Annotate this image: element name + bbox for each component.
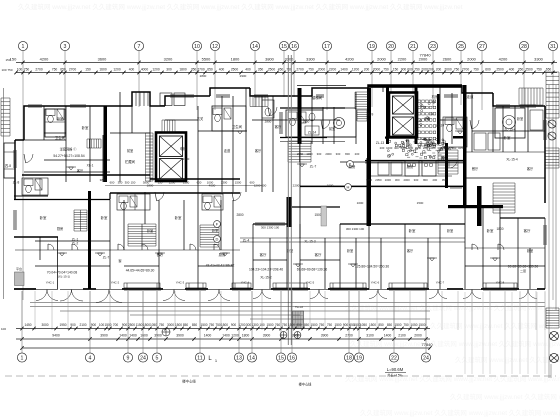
U-stair lower unit2 bbox=[128, 224, 156, 246]
svg-text:1450: 1450 bbox=[24, 323, 31, 327]
svg-text:厨房: 厨房 bbox=[57, 226, 63, 231]
svg-text:300 1300 100: 300 1300 100 bbox=[261, 226, 280, 230]
svg-text:3900: 3900 bbox=[263, 334, 271, 338]
svg-text:2000: 2000 bbox=[444, 146, 451, 150]
svg-text:1800: 1800 bbox=[147, 184, 154, 188]
svg-text:XL-15-2: XL-15-2 bbox=[260, 276, 272, 280]
svg-text:650: 650 bbox=[546, 67, 552, 71]
svg-text:2500: 2500 bbox=[525, 67, 533, 71]
windows left wall bbox=[13, 150, 15, 168]
svg-text:2000: 2000 bbox=[400, 146, 407, 150]
svg-text:750: 750 bbox=[403, 323, 409, 327]
svg-text:24: 24 bbox=[423, 356, 429, 362]
svg-text:走道: 走道 bbox=[424, 116, 431, 121]
svg-text:4: 4 bbox=[89, 356, 92, 362]
svg-text:750: 750 bbox=[536, 67, 542, 71]
svg-text:200: 200 bbox=[423, 146, 428, 150]
svg-text:1400: 1400 bbox=[384, 334, 392, 338]
svg-text:客厅: 客厅 bbox=[315, 252, 322, 257]
svg-text:2700: 2700 bbox=[197, 67, 205, 71]
svg-text:9: 9 bbox=[127, 356, 130, 362]
svg-text:1050: 1050 bbox=[458, 146, 465, 150]
left margin vertical line bbox=[3, 88, 5, 299]
svg-text:ZL-13: ZL-13 bbox=[376, 141, 385, 145]
window left wall center unit bbox=[279, 112, 281, 134]
svg-text:1500: 1500 bbox=[266, 323, 273, 327]
thick black wall bars bbox=[104, 85, 504, 227]
svg-text:77840: 77840 bbox=[421, 342, 433, 347]
svg-text:卧室: 卧室 bbox=[101, 215, 108, 220]
svg-text:750: 750 bbox=[52, 67, 58, 71]
svg-text:H: H bbox=[347, 185, 350, 190]
grid leader lines vertical from top bubbles bbox=[23, 51, 553, 301]
svg-text:窗: 窗 bbox=[118, 258, 121, 263]
svg-text:久久建筑网 www.jjjzw.net 久久建筑网 www.: 久久建筑网 www.jjjzw.net 久久建筑网 www.jjjzw.net … bbox=[345, 374, 560, 383]
svg-text:卧室: 卧室 bbox=[487, 228, 494, 233]
svg-text:1200 300: 1200 300 bbox=[254, 184, 267, 188]
svg-text:洋房网格 ①: 洋房网格 ① bbox=[60, 147, 78, 152]
svg-text:850: 850 bbox=[387, 323, 393, 327]
svg-text:2700: 2700 bbox=[462, 67, 470, 71]
svg-text:600: 600 bbox=[197, 180, 202, 184]
svg-text:楼梯间: 楼梯间 bbox=[312, 95, 323, 100]
bump room divisions top-left bbox=[136, 92, 148, 106]
stair upper small left bbox=[162, 120, 175, 132]
svg-text:卧室: 卧室 bbox=[527, 248, 533, 253]
svg-text:69.68+69.68=139.36: 69.68+69.68=139.36 bbox=[297, 268, 328, 272]
svg-text:2800: 2800 bbox=[200, 74, 207, 78]
interior dim row corridor bbox=[105, 185, 262, 187]
svg-text:2900: 2900 bbox=[303, 120, 310, 124]
svg-text:2000: 2000 bbox=[318, 67, 326, 71]
svg-text:24: 24 bbox=[140, 356, 146, 362]
svg-text:1500: 1500 bbox=[369, 323, 376, 327]
handicap bathroom right mirrored bbox=[495, 108, 525, 138]
svg-text:200: 200 bbox=[380, 146, 385, 150]
svg-text:YHC-7: YHC-7 bbox=[436, 281, 445, 285]
svg-text:750: 750 bbox=[7, 68, 12, 72]
svg-text:850: 850 bbox=[296, 323, 302, 327]
svg-text:1500: 1500 bbox=[314, 213, 321, 217]
interior corridor line pair lower band bbox=[15, 238, 545, 250]
right section grid verticals to centerline bbox=[465, 292, 545, 374]
svg-text:750: 750 bbox=[473, 67, 479, 71]
svg-text:7050: 7050 bbox=[366, 178, 373, 182]
svg-text:14: 14 bbox=[249, 356, 255, 362]
svg-text:1000: 1000 bbox=[386, 146, 393, 150]
windows top walls bbox=[28, 104, 42, 106]
svg-text:750: 750 bbox=[282, 323, 288, 327]
area text labels bbox=[47, 147, 539, 279]
misc interior dimensions bbox=[100, 74, 424, 231]
svg-text:客厅: 客厅 bbox=[255, 148, 262, 153]
svg-text:客厅: 客厅 bbox=[527, 166, 534, 171]
svg-text:150: 150 bbox=[10, 57, 17, 62]
svg-text:ZL-24: ZL-24 bbox=[436, 124, 445, 128]
stair right core x438 bbox=[438, 150, 458, 174]
bath fixtures lower band x117-150 bbox=[119, 196, 128, 203]
dimension ticks top row B bbox=[14, 71, 554, 75]
svg-text:卧室: 卧室 bbox=[40, 215, 47, 220]
right edge ladder hatch lower bbox=[546, 308, 559, 328]
svg-text:300: 300 bbox=[452, 146, 457, 150]
svg-text:77840: 77840 bbox=[419, 53, 431, 58]
watermark text rows bottom right bbox=[345, 303, 560, 417]
svg-text:1800: 1800 bbox=[231, 57, 240, 62]
front room door arc right tower bbox=[450, 161, 457, 168]
bath fixtures lower band x202-223 bbox=[203, 196, 212, 203]
svg-text:100: 100 bbox=[1, 68, 6, 72]
svg-text:2500: 2500 bbox=[268, 67, 276, 71]
elevator core right (two shafts) bbox=[389, 93, 417, 138]
U-stair center-left lower bbox=[288, 141, 311, 162]
svg-text:ZL-15-4: ZL-15-4 bbox=[504, 128, 515, 132]
stair right edge lower bbox=[493, 183, 515, 213]
svg-text:900: 900 bbox=[231, 323, 237, 327]
thick wall x89.5 lower-left bbox=[88, 191, 91, 289]
bottom grid bubble leaders bbox=[22, 291, 426, 353]
svg-text:25: 25 bbox=[458, 44, 464, 50]
svg-text:客厅: 客厅 bbox=[407, 248, 414, 253]
svg-text:14: 14 bbox=[252, 44, 258, 50]
svg-text:1200: 1200 bbox=[426, 67, 434, 71]
svg-text:600: 600 bbox=[110, 180, 115, 184]
svg-text:450: 450 bbox=[278, 67, 284, 71]
svg-text:850: 850 bbox=[183, 323, 189, 327]
svg-text:150: 150 bbox=[393, 67, 399, 71]
svg-text:800: 800 bbox=[423, 178, 428, 182]
svg-text:300: 300 bbox=[414, 178, 419, 182]
svg-text:1400: 1400 bbox=[204, 334, 212, 338]
stair hatch strip left of elevator core bbox=[146, 133, 154, 181]
svg-text:27: 27 bbox=[479, 44, 485, 50]
letter bubbles in plan bbox=[214, 161, 354, 243]
svg-text:3900: 3900 bbox=[154, 334, 162, 338]
svg-text:19: 19 bbox=[369, 44, 375, 50]
svg-text:12: 12 bbox=[212, 44, 218, 50]
svg-text:300: 300 bbox=[395, 178, 400, 182]
svg-text:久久建筑网 www.jjjzw.net 久久建筑网 www.: 久久建筑网 www.jjjzw.net 久久建筑网 www.jjjzw.net … bbox=[430, 321, 560, 330]
svg-text:3200: 3200 bbox=[164, 57, 173, 62]
svg-text:3800: 3800 bbox=[100, 178, 107, 182]
interior door arcs corridor bbox=[26, 154, 33, 163]
svg-text:2700: 2700 bbox=[69, 67, 77, 71]
svg-text:11: 11 bbox=[197, 356, 202, 362]
svg-text:贮藏间: 贮藏间 bbox=[125, 159, 136, 164]
svg-text:1600: 1600 bbox=[140, 334, 148, 338]
svg-text:YHC-2: YHC-2 bbox=[111, 281, 120, 285]
bottom exterior wall with openings bbox=[14, 288, 545, 290]
svg-text:5500: 5500 bbox=[202, 57, 211, 62]
balcony boxes above left core bbox=[160, 93, 172, 106]
small unit tags bottom bbox=[46, 281, 505, 285]
svg-text:21: 21 bbox=[410, 44, 416, 50]
svg-text:卧室: 卧室 bbox=[517, 116, 523, 121]
grid bubbles top row bbox=[18, 41, 557, 50]
svg-text:2000: 2000 bbox=[373, 67, 381, 71]
svg-text:久久建筑网 www.jjjzw.net 久久建筑网 www.: 久久建筑网 www.jjjzw.net 久久建筑网 www.jjjzw.net … bbox=[18, 2, 463, 11]
svg-text:厨房: 厨房 bbox=[349, 164, 356, 169]
svg-text:69.68+69.68=139.36: 69.68+69.68=139.36 bbox=[508, 265, 539, 269]
svg-text:750: 750 bbox=[414, 67, 420, 71]
svg-text:2800: 2800 bbox=[236, 213, 243, 217]
svg-text:YHC-8: YHC-8 bbox=[496, 281, 505, 285]
svg-text:16: 16 bbox=[291, 44, 297, 50]
handicap bathroom center-right bbox=[323, 108, 356, 137]
svg-text:1950: 1950 bbox=[59, 323, 66, 327]
dimension lines bottom bbox=[16, 329, 430, 349]
svg-text:卧室: 卧室 bbox=[447, 228, 453, 233]
svg-text:2000: 2000 bbox=[325, 152, 332, 156]
svg-text:19: 19 bbox=[356, 356, 362, 362]
svg-text:17: 17 bbox=[324, 44, 330, 50]
svg-text:200: 200 bbox=[432, 178, 437, 182]
fixtures center2 bbox=[262, 100, 274, 118]
svg-text:2500: 2500 bbox=[128, 323, 135, 327]
svg-text:3100: 3100 bbox=[366, 334, 374, 338]
dimension lines top rows bbox=[16, 62, 557, 64]
extra room labels bbox=[57, 116, 534, 263]
room name labels bbox=[40, 94, 531, 257]
svg-text:L=90.6M: L=90.6M bbox=[387, 367, 404, 372]
svg-text:300: 300 bbox=[336, 152, 341, 156]
left margin tiny dims bbox=[1, 58, 12, 72]
svg-text:2500: 2500 bbox=[496, 67, 504, 71]
svg-text:9400: 9400 bbox=[52, 334, 60, 338]
svg-text:1500: 1500 bbox=[310, 323, 317, 327]
svg-text:1800: 1800 bbox=[242, 334, 250, 338]
svg-text:100: 100 bbox=[1, 327, 6, 331]
svg-text:1400: 1400 bbox=[119, 334, 127, 338]
small cross circles bottom center bbox=[280, 332, 301, 339]
top line center notch bbox=[297, 85, 346, 87]
svg-text:18: 18 bbox=[346, 356, 352, 362]
expansion joint column center full height bbox=[288, 55, 291, 345]
svg-text:楼中心线: 楼中心线 bbox=[299, 382, 313, 387]
svg-text:850: 850 bbox=[378, 323, 384, 327]
svg-text:电梯: 电梯 bbox=[180, 146, 187, 151]
svg-text:950: 950 bbox=[442, 178, 447, 182]
svg-text:4200: 4200 bbox=[499, 57, 508, 62]
stair center top x250 bbox=[250, 96, 268, 107]
svg-text:1400: 1400 bbox=[222, 334, 230, 338]
svg-text:750: 750 bbox=[327, 323, 333, 327]
svg-text:2700: 2700 bbox=[296, 67, 304, 71]
interior partition walls horizontal bbox=[24, 120, 545, 266]
svg-text:1000: 1000 bbox=[327, 184, 334, 188]
svg-text:28: 28 bbox=[521, 44, 527, 50]
svg-text:卧室: 卧室 bbox=[409, 228, 416, 233]
svg-text:卧室: 卧室 bbox=[504, 135, 511, 140]
svg-text:久久建筑网 www.jjjzw.net 久久建筑网 www.: 久久建筑网 www.jjjzw.net 久久建筑网 www.jjjzw.net … bbox=[360, 408, 560, 417]
svg-text:2000: 2000 bbox=[467, 57, 476, 62]
svg-text:久久建筑网 www.jjjzw.net 久久建筑网 www.: 久久建筑网 www.jjjzw.net 久久建筑网 www.jjjzw.net … bbox=[455, 355, 560, 364]
svg-text:卧室: 卧室 bbox=[347, 248, 353, 253]
svg-text:300: 300 bbox=[394, 146, 399, 150]
dimension numbers top row B bbox=[17, 67, 552, 71]
dimension numbers top row A bbox=[10, 57, 544, 62]
svg-text:7: 7 bbox=[138, 44, 141, 50]
svg-text:(XL-15-1): (XL-15-1) bbox=[58, 275, 70, 279]
svg-text:1500: 1500 bbox=[175, 323, 182, 327]
interior partition walls vertical bbox=[40, 85, 545, 289]
svg-text:15: 15 bbox=[281, 44, 287, 50]
svg-text:YHC-5: YHC-5 bbox=[306, 281, 315, 285]
svg-text:卫生间: 卫生间 bbox=[232, 124, 243, 129]
svg-text:2050: 2050 bbox=[375, 178, 382, 182]
svg-text:楼中心线: 楼中心线 bbox=[182, 379, 196, 384]
svg-text:10: 10 bbox=[194, 44, 200, 50]
bathroom fixtures left unit bbox=[46, 109, 55, 116]
svg-text:900: 900 bbox=[122, 323, 128, 327]
svg-text:15: 15 bbox=[278, 356, 284, 362]
svg-text:400: 400 bbox=[219, 67, 225, 71]
dimension numbers bottom row D bbox=[52, 334, 422, 338]
svg-text:YHC-3: YHC-3 bbox=[176, 281, 185, 285]
svg-text:2200: 2200 bbox=[398, 57, 407, 62]
dimension ticks bottom row D bbox=[20, 337, 427, 341]
svg-text:1500: 1500 bbox=[200, 323, 207, 327]
svg-text:2000: 2000 bbox=[444, 67, 452, 71]
svg-text:350: 350 bbox=[258, 67, 264, 71]
svg-text:共长±4.5‰: 共长±4.5‰ bbox=[387, 373, 404, 378]
svg-text:1: 1 bbox=[22, 44, 25, 50]
svg-text:4200: 4200 bbox=[40, 57, 49, 62]
lower edge wall center-right bbox=[300, 186, 465, 188]
svg-text:300: 300 bbox=[437, 146, 442, 150]
svg-text:ZL-4: ZL-4 bbox=[243, 239, 250, 243]
gray hatch strip right of joint bbox=[321, 206, 327, 226]
svg-text:750: 750 bbox=[159, 323, 165, 327]
svg-text:700: 700 bbox=[113, 323, 119, 327]
svg-text:150: 150 bbox=[131, 180, 136, 184]
kitchen boxes right band bbox=[405, 161, 419, 177]
svg-text:350: 350 bbox=[191, 67, 197, 71]
svg-text:31: 31 bbox=[550, 44, 556, 50]
svg-text:300 1300 100: 300 1300 100 bbox=[346, 227, 365, 231]
end ticks long line bbox=[20, 346, 431, 350]
svg-text:YHC-4: YHC-4 bbox=[241, 281, 250, 285]
svg-text:卧室: 卧室 bbox=[212, 228, 218, 233]
svg-text:2000: 2000 bbox=[414, 334, 422, 338]
svg-text:平台: 平台 bbox=[16, 266, 22, 271]
gray hatched box Tw-c2 bbox=[293, 311, 304, 329]
svg-text:2800: 2800 bbox=[265, 120, 272, 124]
svg-text:XL-15-3: XL-15-3 bbox=[304, 240, 316, 244]
centerline dashed bbox=[5, 375, 556, 377]
svg-text:4000: 4000 bbox=[209, 184, 216, 188]
svg-text:3900: 3900 bbox=[176, 334, 184, 338]
svg-text:2200: 2200 bbox=[293, 184, 300, 188]
svg-text:XL-1: XL-1 bbox=[87, 164, 94, 168]
svg-text:1500: 1500 bbox=[235, 180, 242, 184]
svg-text:3: 3 bbox=[64, 44, 67, 50]
svg-text:44.65+44.65=89.30: 44.65+44.65=89.30 bbox=[126, 269, 155, 273]
svg-text:600: 600 bbox=[485, 67, 491, 71]
right edge ladder hatch mid bbox=[545, 148, 559, 168]
svg-text:YHC-1: YHC-1 bbox=[46, 281, 55, 285]
svg-text:ZL-14: ZL-14 bbox=[308, 131, 317, 135]
canopy lines below bottom wall bbox=[30, 303, 545, 320]
svg-text:1400: 1400 bbox=[340, 67, 348, 71]
svg-text:1050: 1050 bbox=[410, 323, 417, 327]
svg-text:前室: 前室 bbox=[127, 148, 133, 153]
svg-text:300: 300 bbox=[166, 67, 172, 71]
small triangle level marks bbox=[57, 131, 500, 267]
svg-text:2200: 2200 bbox=[329, 67, 337, 71]
svg-text:22: 22 bbox=[391, 356, 397, 362]
top wall y108 center bbox=[280, 107, 345, 109]
svg-text:YHC-6: YHC-6 bbox=[371, 281, 380, 285]
svg-text:久久建筑网 www.jjjzw.net 久久建筑网 www.: 久久建筑网 www.jjjzw.net 久久建筑网 www.jjjzw.net … bbox=[450, 392, 560, 401]
svg-text:2600: 2600 bbox=[443, 57, 452, 62]
svg-text:2900: 2900 bbox=[240, 74, 247, 78]
dimension ticks top row A bbox=[21, 61, 554, 65]
left edge ladder hatch bbox=[1, 98, 10, 136]
svg-text:750: 750 bbox=[319, 323, 325, 327]
svg-text:1200: 1200 bbox=[231, 334, 239, 338]
stair small x88 bbox=[87, 139, 101, 148]
U-stair lower unit1 bbox=[74, 210, 87, 231]
svg-text:750: 750 bbox=[209, 323, 215, 327]
svg-text:900: 900 bbox=[343, 323, 349, 327]
svg-text:客厅: 客厅 bbox=[275, 124, 282, 129]
fixtures right small rooms bbox=[445, 118, 454, 125]
svg-text:1000: 1000 bbox=[385, 178, 392, 182]
svg-text:750: 750 bbox=[383, 67, 389, 71]
svg-text:3900: 3900 bbox=[292, 334, 300, 338]
svg-text:餐厅: 餐厅 bbox=[472, 166, 479, 171]
svg-text:900: 900 bbox=[91, 323, 97, 327]
building outer walls bbox=[15, 85, 545, 203]
grid bubbles bottom row bbox=[17, 353, 430, 362]
bathroom fixtures left lower bbox=[24, 179, 33, 186]
U-stair lower unit3 bbox=[200, 225, 219, 247]
svg-text:1500: 1500 bbox=[334, 323, 341, 327]
svg-text:客厅: 客厅 bbox=[260, 252, 267, 257]
svg-text:1500: 1500 bbox=[417, 201, 424, 205]
wall y237 lower-left bbox=[14, 236, 58, 238]
svg-text:XL-15-4: XL-15-4 bbox=[506, 158, 518, 162]
window on lower-center top wall bbox=[255, 222, 285, 224]
svg-text:2100: 2100 bbox=[79, 323, 86, 327]
right unit closets bbox=[474, 110, 543, 150]
svg-text:850: 850 bbox=[192, 323, 198, 327]
svg-text:760: 760 bbox=[275, 323, 281, 327]
svg-text:1000: 1000 bbox=[429, 146, 436, 150]
svg-text:3900: 3900 bbox=[321, 334, 329, 338]
svg-text:350: 350 bbox=[518, 67, 524, 71]
svg-text:4000: 4000 bbox=[141, 67, 149, 71]
right edge ladder hatch upper bbox=[546, 72, 559, 118]
svg-text:1050: 1050 bbox=[415, 146, 422, 150]
bathroom fixtures center bbox=[213, 108, 222, 115]
svg-text:200: 200 bbox=[436, 67, 442, 71]
svg-text:104.23+104.23=208.46: 104.23+104.23=208.46 bbox=[249, 268, 283, 272]
mid corridor walls left half bbox=[22, 175, 240, 179]
svg-text:1500: 1500 bbox=[394, 323, 401, 327]
svg-text:卧室: 卧室 bbox=[82, 125, 89, 130]
svg-text:900: 900 bbox=[401, 67, 407, 71]
svg-text:3600: 3600 bbox=[98, 57, 107, 62]
windows on bottom wall bbox=[124, 287, 161, 289]
svg-text:125.86+134.50=260.36: 125.86+134.50=260.36 bbox=[355, 265, 389, 269]
svg-text:3900: 3900 bbox=[100, 334, 108, 338]
svg-text:客厅: 客厅 bbox=[524, 228, 531, 233]
mid corridor walls right half bbox=[280, 138, 465, 161]
dense dim text cluster right-center corridor bbox=[297, 146, 465, 182]
crossed circle symbol x166 bbox=[162, 328, 170, 336]
